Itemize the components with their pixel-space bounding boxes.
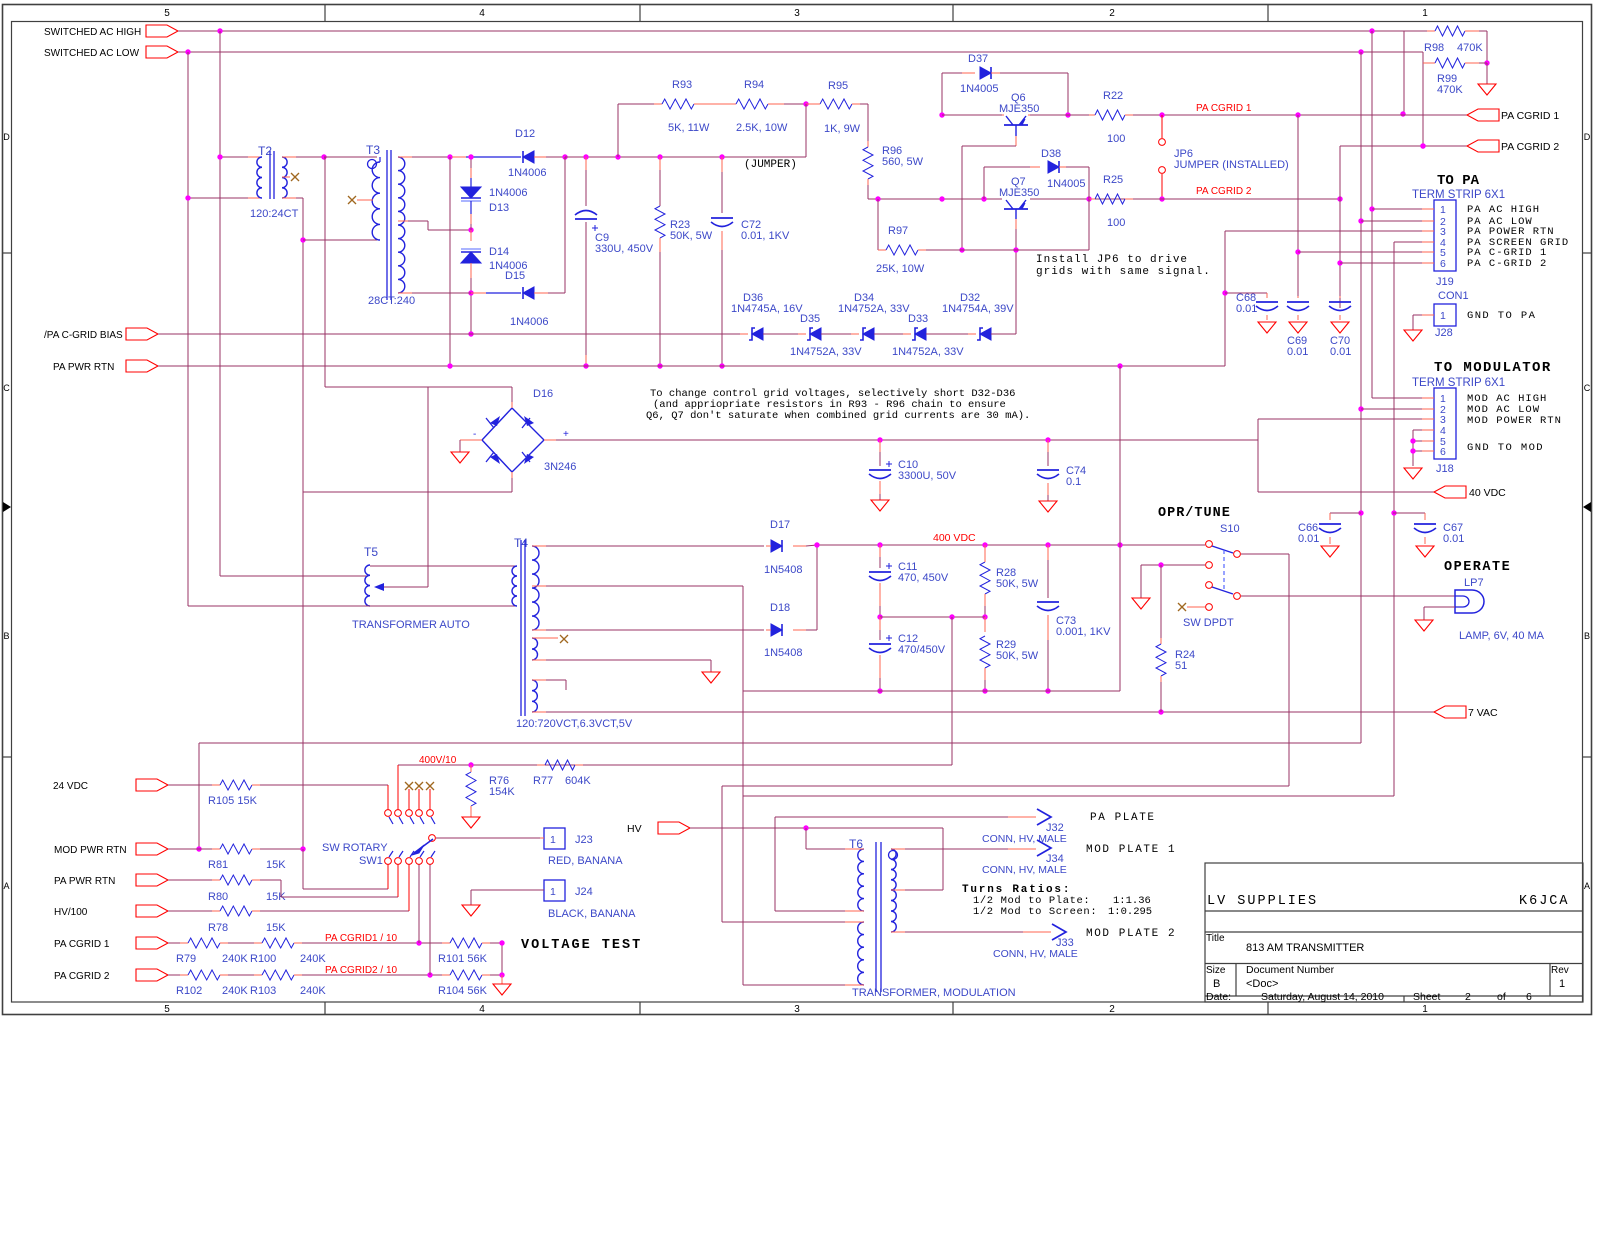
svg-text:R22: R22	[1103, 90, 1123, 102]
svg-text:C: C	[1584, 383, 1591, 393]
svg-text:B: B	[1584, 631, 1590, 641]
svg-text:TRANSFORMER AUTO: TRANSFORMER AUTO	[352, 619, 470, 631]
svg-text:Rev: Rev	[1551, 965, 1569, 976]
svg-text:1K, 9W: 1K, 9W	[824, 123, 861, 135]
svg-text:2: 2	[1109, 1004, 1115, 1015]
svg-text:D35: D35	[800, 313, 820, 325]
svg-text:5K, 11W: 5K, 11W	[668, 122, 710, 134]
svg-text:0.01: 0.01	[1287, 346, 1308, 358]
svg-text:D17: D17	[770, 519, 790, 531]
svg-text:Date:: Date:	[1206, 991, 1231, 1003]
svg-text:5: 5	[164, 1004, 170, 1015]
svg-text:MOD PWR RTN: MOD PWR RTN	[54, 845, 127, 856]
svg-text:0.01: 0.01	[1443, 533, 1464, 545]
svg-text:R81: R81	[208, 859, 228, 871]
svg-text:HV: HV	[627, 823, 642, 835]
svg-text:LV SUPPLIES: LV SUPPLIES	[1207, 894, 1318, 909]
svg-text:PA PLATE: PA PLATE	[1090, 812, 1156, 824]
svg-text:R77: R77	[533, 775, 553, 787]
svg-text:400 VDC: 400 VDC	[933, 532, 976, 544]
svg-text:470K: 470K	[1457, 42, 1483, 54]
svg-text:2: 2	[1109, 8, 1115, 19]
svg-text:604K: 604K	[565, 775, 591, 787]
svg-text:120:720VCT,6.3VCT,5V: 120:720VCT,6.3VCT,5V	[516, 718, 633, 730]
svg-text:Sheet: Sheet	[1413, 991, 1441, 1003]
svg-text:3300U, 50V: 3300U, 50V	[898, 470, 957, 482]
svg-text:PA CGRID 2: PA CGRID 2	[1196, 186, 1252, 197]
svg-text:grids with same signal.: grids with same signal.	[1036, 266, 1211, 278]
svg-text:MOD PLATE 1: MOD PLATE 1	[1086, 844, 1176, 856]
svg-text:TO PA: TO PA	[1437, 173, 1480, 189]
svg-text:R78: R78	[208, 922, 228, 934]
svg-text:PA C-GRID 2: PA C-GRID 2	[1467, 258, 1547, 270]
svg-text:6: 6	[1526, 991, 1532, 1003]
svg-text:BLACK, BANANA: BLACK, BANANA	[548, 908, 636, 920]
svg-text:J28: J28	[1435, 327, 1453, 339]
svg-text:0.01, 1KV: 0.01, 1KV	[741, 230, 790, 242]
svg-text:R101 56K: R101 56K	[438, 953, 488, 965]
svg-text:MJE350: MJE350	[999, 187, 1039, 199]
svg-text:R93: R93	[672, 79, 692, 91]
svg-text:TERM STRIP 6X1: TERM STRIP 6X1	[1412, 377, 1505, 389]
svg-text:PA CGRID1 / 10: PA CGRID1 / 10	[325, 933, 398, 944]
svg-text:24 VDC: 24 VDC	[53, 781, 88, 792]
svg-text:PA CGRID 2: PA CGRID 2	[1501, 141, 1559, 153]
svg-text:PA CGRID 1: PA CGRID 1	[1196, 103, 1252, 114]
svg-text:400V/10: 400V/10	[419, 755, 457, 766]
svg-text:MOD POWER RTN: MOD POWER RTN	[1467, 415, 1562, 427]
svg-text:CONN, HV, MALE: CONN, HV, MALE	[982, 833, 1067, 845]
svg-text:LP7: LP7	[1464, 577, 1484, 589]
svg-text:R102: R102	[176, 985, 202, 997]
svg-text:1N4006: 1N4006	[508, 167, 547, 179]
svg-text:560, 5W: 560, 5W	[882, 156, 924, 168]
svg-text:SW ROTARY: SW ROTARY	[322, 842, 388, 854]
svg-text:51: 51	[1175, 660, 1187, 672]
svg-text:100: 100	[1107, 133, 1125, 145]
svg-text:D14: D14	[489, 246, 509, 258]
svg-text:GND TO MOD: GND TO MOD	[1467, 442, 1544, 454]
svg-text:R103: R103	[250, 985, 276, 997]
svg-text:470/450V: 470/450V	[898, 644, 946, 656]
svg-text:R80: R80	[208, 891, 228, 903]
svg-text:RED, BANANA: RED, BANANA	[548, 855, 623, 867]
svg-text:3: 3	[794, 8, 800, 19]
svg-text:1N4745A, 16V: 1N4745A, 16V	[731, 303, 803, 315]
svg-text:240K: 240K	[300, 985, 326, 997]
svg-text:R95: R95	[828, 80, 848, 92]
svg-text:A: A	[1584, 881, 1590, 891]
svg-text:1N4006: 1N4006	[489, 187, 528, 199]
svg-text:1: 1	[550, 886, 556, 898]
svg-text:Install JP6 to drive: Install JP6 to drive	[1036, 254, 1188, 266]
svg-text:OPERATE: OPERATE	[1444, 560, 1511, 575]
svg-text:T2: T2	[258, 144, 272, 158]
svg-text:D33: D33	[908, 313, 928, 325]
svg-text:J23: J23	[575, 834, 593, 846]
svg-text:(JUMPER): (JUMPER)	[744, 159, 797, 171]
svg-text:120:24CT: 120:24CT	[250, 208, 299, 220]
svg-text:1: 1	[1422, 1004, 1428, 1015]
svg-text:GND TO PA: GND TO PA	[1467, 310, 1536, 322]
svg-text:PA AC HIGH: PA AC HIGH	[1467, 204, 1540, 216]
svg-text:PA CGRID 2: PA CGRID 2	[54, 971, 110, 982]
svg-text:1:0.295: 1:0.295	[1108, 906, 1152, 918]
svg-text:R100: R100	[250, 953, 276, 965]
svg-text:D38: D38	[1041, 148, 1061, 160]
svg-text:28CT:240: 28CT:240	[368, 295, 415, 307]
svg-text:SW DPDT: SW DPDT	[1183, 617, 1234, 629]
svg-text:0.001, 1KV: 0.001, 1KV	[1056, 626, 1111, 638]
svg-text:7 VAC: 7 VAC	[1468, 707, 1498, 719]
svg-text:100: 100	[1107, 217, 1125, 229]
svg-text:D12: D12	[515, 128, 535, 140]
svg-text:1N5408: 1N5408	[764, 564, 803, 576]
svg-text:D13: D13	[489, 202, 509, 214]
svg-text:2: 2	[1465, 991, 1471, 1003]
svg-text:J19: J19	[1436, 276, 1454, 288]
svg-text:1N4752A, 33V: 1N4752A, 33V	[790, 346, 862, 358]
svg-text:1: 1	[1422, 8, 1428, 19]
svg-text:0.1: 0.1	[1066, 476, 1081, 488]
svg-text:Q6, Q7 don't saturate when com: Q6, Q7 don't saturate when combined grid…	[646, 410, 1030, 422]
svg-text:B: B	[3, 631, 9, 641]
svg-text:T5: T5	[364, 545, 378, 559]
svg-text:1N4752A, 33V: 1N4752A, 33V	[838, 303, 910, 315]
svg-text:1: 1	[1559, 978, 1565, 990]
svg-text:4: 4	[479, 8, 485, 19]
svg-text:LAMP, 6V, 40 MA: LAMP, 6V, 40 MA	[1459, 630, 1545, 642]
svg-text:SWITCHED AC HIGH: SWITCHED AC HIGH	[44, 27, 141, 38]
svg-text:TERM STRIP 6X1: TERM STRIP 6X1	[1412, 189, 1505, 201]
svg-text:1: 1	[1440, 204, 1446, 216]
svg-text:A: A	[3, 881, 9, 891]
svg-text:VOLTAGE TEST: VOLTAGE TEST	[521, 938, 642, 953]
svg-text:D37: D37	[968, 53, 988, 65]
svg-text:MOD PLATE 2: MOD PLATE 2	[1086, 928, 1176, 940]
svg-text:CON1: CON1	[1438, 290, 1469, 302]
svg-text:240K: 240K	[222, 953, 248, 965]
svg-text:1: 1	[550, 834, 556, 846]
svg-text:5: 5	[164, 8, 170, 19]
svg-text:240K: 240K	[300, 953, 326, 965]
svg-text:R94: R94	[744, 79, 764, 91]
svg-text:R97: R97	[888, 225, 908, 237]
svg-text:1N4006: 1N4006	[510, 316, 549, 328]
svg-text:40 VDC: 40 VDC	[1469, 487, 1506, 499]
svg-text:D: D	[1584, 132, 1591, 142]
svg-text:0.01: 0.01	[1236, 303, 1257, 315]
svg-text:1N4754A, 39V: 1N4754A, 39V	[942, 303, 1014, 315]
svg-text:J18: J18	[1436, 463, 1454, 475]
svg-text:1N4752A, 33V: 1N4752A, 33V	[892, 346, 964, 358]
svg-text:R105 15K: R105 15K	[208, 795, 258, 807]
svg-text:PA CGRID2 / 10: PA CGRID2 / 10	[325, 965, 398, 976]
svg-text:PA PWR RTN: PA PWR RTN	[53, 362, 114, 373]
svg-text:PA PWR RTN: PA PWR RTN	[54, 876, 115, 887]
svg-text:Document Number: Document Number	[1246, 964, 1335, 976]
svg-text:JUMPER (INSTALLED): JUMPER (INSTALLED)	[1174, 159, 1289, 171]
svg-text:15K: 15K	[266, 922, 286, 934]
svg-text:C: C	[3, 383, 10, 393]
svg-text:3: 3	[794, 1004, 800, 1015]
svg-text:CONN, HV, MALE: CONN, HV, MALE	[982, 864, 1067, 876]
svg-text:SWITCHED AC LOW: SWITCHED AC LOW	[44, 48, 140, 59]
svg-text:OPR/TUNE: OPR/TUNE	[1158, 506, 1231, 521]
svg-text:MJE350: MJE350	[999, 103, 1039, 115]
svg-text:6: 6	[1440, 446, 1446, 458]
svg-text:-: -	[473, 429, 476, 440]
svg-text:154K: 154K	[489, 786, 515, 798]
svg-text:T3: T3	[366, 143, 380, 157]
svg-text:D15: D15	[505, 270, 525, 282]
svg-text:3N246: 3N246	[544, 461, 576, 473]
svg-text:R79: R79	[176, 953, 196, 965]
svg-text:S10: S10	[1220, 523, 1240, 535]
svg-text:of: of	[1497, 991, 1506, 1003]
svg-text:330U, 450V: 330U, 450V	[595, 243, 654, 255]
svg-text:0.01: 0.01	[1298, 533, 1319, 545]
svg-text:TRANSFORMER, MODULATION: TRANSFORMER, MODULATION	[852, 987, 1016, 999]
svg-text:50K, 5W: 50K, 5W	[996, 650, 1039, 662]
svg-text:470K: 470K	[1437, 84, 1463, 96]
svg-text:/PA C-GRID BIAS: /PA C-GRID BIAS	[44, 330, 123, 341]
svg-text:K6JCA: K6JCA	[1519, 894, 1570, 909]
svg-text:15K: 15K	[266, 859, 286, 871]
svg-text:4: 4	[479, 1004, 485, 1015]
svg-text:Size: Size	[1206, 965, 1226, 976]
svg-text:PA CGRID 1: PA CGRID 1	[1501, 110, 1559, 122]
svg-text:D18: D18	[770, 602, 790, 614]
svg-text:D: D	[3, 132, 10, 142]
svg-text:2.5K, 10W: 2.5K, 10W	[736, 122, 788, 134]
svg-text:SW1: SW1	[359, 855, 383, 867]
svg-text:50K, 5W: 50K, 5W	[996, 578, 1039, 590]
svg-text:R98: R98	[1424, 42, 1444, 54]
svg-text:R25: R25	[1103, 174, 1123, 186]
svg-text:B: B	[1213, 978, 1220, 990]
svg-text:25K, 10W: 25K, 10W	[876, 263, 925, 275]
svg-text:470, 450V: 470, 450V	[898, 572, 949, 584]
svg-text:1N4005: 1N4005	[960, 83, 999, 95]
svg-text:Title: Title	[1206, 933, 1225, 944]
svg-text:1N4005: 1N4005	[1047, 178, 1086, 190]
svg-text:240K: 240K	[222, 985, 248, 997]
svg-text:HV/100: HV/100	[54, 907, 88, 918]
svg-text:50K, 5W: 50K, 5W	[670, 230, 713, 242]
svg-text:D16: D16	[533, 388, 553, 400]
svg-text:<Doc>: <Doc>	[1246, 978, 1278, 990]
svg-text:1: 1	[1440, 310, 1446, 322]
svg-text:0.01: 0.01	[1330, 346, 1351, 358]
svg-text:R104 56K: R104 56K	[438, 985, 488, 997]
svg-text:CONN, HV, MALE: CONN, HV, MALE	[993, 948, 1078, 960]
svg-text:TO MODULATOR: TO MODULATOR	[1434, 360, 1552, 376]
svg-text:813 AM TRANSMITTER: 813 AM TRANSMITTER	[1246, 942, 1364, 954]
svg-text:1N5408: 1N5408	[764, 647, 803, 659]
svg-text:J24: J24	[575, 886, 593, 898]
svg-text:6: 6	[1440, 258, 1446, 270]
svg-text:Saturday, August 14, 2010: Saturday, August 14, 2010	[1261, 991, 1384, 1003]
svg-text:1/2 Mod to Screen:: 1/2 Mod to Screen:	[973, 906, 1097, 918]
svg-text:PA CGRID 1: PA CGRID 1	[54, 939, 110, 950]
svg-text:+: +	[563, 429, 569, 440]
